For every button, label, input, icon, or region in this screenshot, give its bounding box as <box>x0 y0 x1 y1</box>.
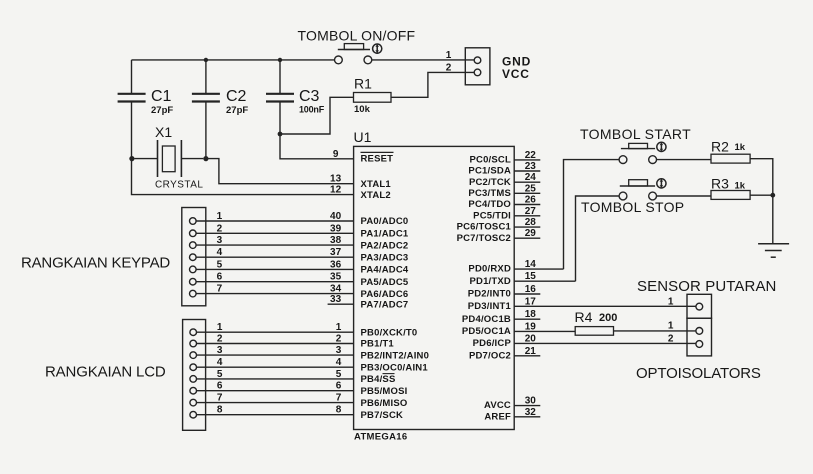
svg-text:VCC: VCC <box>502 67 530 81</box>
wire keypad pin 5 to U1 pin 36 <box>196 268 354 270</box>
connector LCD <box>183 320 206 431</box>
svg-text:PD3/INT1: PD3/INT1 <box>468 301 512 312</box>
svg-text:3: 3 <box>217 235 223 246</box>
svg-text:PC5/TDI: PC5/TDI <box>473 210 511 221</box>
pin 14 PD0/RXD stub/wire <box>514 268 563 270</box>
svg-text:1: 1 <box>446 50 452 61</box>
svg-text:TOMBOL START: TOMBOL START <box>580 126 691 142</box>
wire left rail upper (C1 top lead) <box>131 60 133 94</box>
wire C3 junction to R1 left <box>280 97 354 134</box>
svg-text:27pF: 27pF <box>226 105 248 116</box>
switch TOMBOL ON/OFF <box>298 28 416 64</box>
svg-text:1k: 1k <box>735 142 746 153</box>
node junction C3 top <box>278 58 282 62</box>
svg-text:PC3/TMS: PC3/TMS <box>468 188 511 199</box>
connector sensor putaran <box>687 294 712 318</box>
svg-text:20: 20 <box>525 333 537 344</box>
wire crystal right to XTAL1 <box>206 159 354 184</box>
svg-text:PD1/TXD: PD1/TXD <box>469 276 511 287</box>
pin 15 PD1/TXD stub/wire <box>514 280 575 282</box>
pin 32 AREF stub <box>514 416 540 418</box>
svg-text:PB4/SS: PB4/SS <box>361 374 396 385</box>
svg-text:PB6/MISO: PB6/MISO <box>361 398 408 409</box>
svg-text:6: 6 <box>217 381 223 392</box>
svg-text:PA1/ADC1: PA1/ADC1 <box>361 229 409 240</box>
wire LCD pin 7 to U1 pin 7 <box>197 402 354 404</box>
capacitor C1 <box>118 88 174 116</box>
wire C2 top lead <box>205 60 207 94</box>
pin 16 PD2/INT0 stub/wire <box>514 293 540 295</box>
svg-text:29: 29 <box>525 228 537 239</box>
svg-text:PC1/SDA: PC1/SDA <box>468 166 511 177</box>
crystal X1 <box>135 124 204 191</box>
wire C3 top lead <box>279 60 281 94</box>
wire LCD pin 6 to U1 pin 6 <box>197 390 354 392</box>
wire R3 right to ground rail <box>750 194 773 196</box>
svg-text:14: 14 <box>525 259 537 270</box>
pin 27 PC5/TDI stub <box>514 215 540 217</box>
wire keypad pin 6 to U1 pin 35 <box>196 281 354 283</box>
pin 28 PC6/TOSC1 stub <box>514 226 540 228</box>
pin 24 PC2/TCK stub <box>514 181 540 183</box>
wire LCD pin 5 to U1 pin 5 <box>197 378 354 380</box>
node junction crystal right <box>203 156 208 161</box>
svg-text:PD5/OC1A: PD5/OC1A <box>462 326 511 337</box>
svg-text:C1: C1 <box>151 88 172 105</box>
ground symbol <box>758 244 789 258</box>
svg-text:PB5/MOSI: PB5/MOSI <box>361 386 408 397</box>
svg-text:35: 35 <box>330 272 342 283</box>
svg-text:R3: R3 <box>711 176 729 192</box>
pin 22 PC0/SCL stub <box>514 159 540 161</box>
svg-text:PC6/TOSC1: PC6/TOSC1 <box>457 222 512 233</box>
svg-text:5: 5 <box>217 369 223 380</box>
wire R2 right to ground rail <box>750 159 773 244</box>
svg-text:22: 22 <box>525 150 537 161</box>
wire keypad pin 7 to U1 pin 34 <box>196 293 354 295</box>
svg-text:21: 21 <box>525 346 537 357</box>
svg-text:4: 4 <box>217 357 223 368</box>
svg-text:200: 200 <box>599 312 617 324</box>
svg-text:1: 1 <box>668 321 674 332</box>
svg-text:23: 23 <box>525 161 537 172</box>
svg-text:6: 6 <box>217 272 223 283</box>
svg-text:4: 4 <box>217 247 223 258</box>
node junction crystal left <box>129 156 134 161</box>
svg-text:2: 2 <box>217 223 223 234</box>
svg-text:PC4/TDO: PC4/TDO <box>468 199 511 210</box>
svg-text:4: 4 <box>336 357 342 368</box>
svg-text:PA5/ADC5: PA5/ADC5 <box>361 277 409 288</box>
wire START left contact to pin14 riser <box>564 160 620 270</box>
svg-text:28: 28 <box>525 217 537 228</box>
resistor R1 <box>354 76 392 116</box>
svg-text:7: 7 <box>336 393 342 404</box>
node junction C3 bottom <box>278 132 283 137</box>
svg-text:7: 7 <box>217 284 223 295</box>
node junction R3/ground rail <box>770 193 775 198</box>
wire C1 bottom lead <box>131 102 133 159</box>
svg-text:5: 5 <box>217 259 223 270</box>
wire LCD pin 3 to U1 pin 3 <box>197 354 354 356</box>
svg-text:PA6/ADC6: PA6/ADC6 <box>361 289 409 300</box>
switch TOMBOL START <box>580 126 691 164</box>
pin 25 PC3/TMS stub <box>514 192 540 194</box>
svg-text:C3: C3 <box>299 88 320 105</box>
svg-text:AVCC: AVCC <box>484 400 511 411</box>
svg-text:2: 2 <box>217 334 223 345</box>
svg-text:PA3/ADC3: PA3/ADC3 <box>361 252 409 263</box>
wire left rail lower to XTAL2 <box>132 159 354 195</box>
capacitor C2 <box>192 88 248 116</box>
svg-text:OPTOISOLATORS: OPTOISOLATORS <box>636 365 761 382</box>
svg-text:24: 24 <box>525 172 537 183</box>
wire keypad pin 1 to U1 pin 40 <box>196 220 354 222</box>
svg-text:TOMBOL ON/OFF: TOMBOL ON/OFF <box>298 28 416 44</box>
svg-text:CRYSTAL: CRYSTAL <box>155 180 203 191</box>
svg-text:27pF: 27pF <box>151 105 173 116</box>
connector J1 GND/VCC <box>465 48 490 85</box>
svg-text:PD0/RXD: PD0/RXD <box>468 264 511 275</box>
svg-text:100nF: 100nF <box>299 105 325 115</box>
svg-text:PD7/OC2: PD7/OC2 <box>469 350 511 361</box>
svg-text:3: 3 <box>217 345 223 356</box>
pin 29 PC7/TOSC2 stub <box>514 237 540 239</box>
svg-text:19: 19 <box>525 321 537 332</box>
svg-text:XTAL1: XTAL1 <box>361 179 392 190</box>
svg-text:12: 12 <box>330 185 342 196</box>
svg-text:5: 5 <box>336 369 342 380</box>
wire C3 bottom lead <box>279 102 281 135</box>
connector optoisolators <box>687 318 712 356</box>
svg-text:7: 7 <box>217 393 223 404</box>
svg-text:PA7/ADC7: PA7/ADC7 <box>361 299 409 310</box>
wire LCD pin 2 to U1 pin 2 <box>197 343 354 345</box>
wire LCD pin 4 to U1 pin 4 <box>197 366 354 368</box>
svg-text:3: 3 <box>336 345 342 356</box>
svg-text:XTAL2: XTAL2 <box>361 190 391 201</box>
svg-text:16: 16 <box>525 284 537 295</box>
svg-text:RANGKAIAN LCD: RANGKAIAN LCD <box>45 364 166 381</box>
svg-text:PB1/T1: PB1/T1 <box>361 339 395 350</box>
svg-text:RESET: RESET <box>361 154 394 165</box>
svg-text:PB0/XCK/T0: PB0/XCK/T0 <box>361 327 418 338</box>
svg-text:36: 36 <box>330 259 342 270</box>
svg-text:8: 8 <box>217 405 223 416</box>
wire R4 right lead to opto pin1 <box>614 330 696 332</box>
svg-text:34: 34 <box>330 284 342 295</box>
overline for SS on PB4 <box>383 373 395 375</box>
svg-text:9: 9 <box>333 149 339 160</box>
svg-text:U1: U1 <box>354 129 372 145</box>
svg-text:38: 38 <box>330 235 342 246</box>
svg-text:15: 15 <box>525 271 537 282</box>
svg-text:6: 6 <box>336 381 342 392</box>
svg-text:25: 25 <box>525 183 537 194</box>
pin 19 PD5/OC1A stub/wire <box>514 330 575 332</box>
svg-text:PA2/ADC2: PA2/ADC2 <box>361 240 409 251</box>
svg-text:18: 18 <box>525 309 537 320</box>
svg-text:32: 32 <box>525 407 537 418</box>
svg-text:1k: 1k <box>735 181 746 192</box>
svg-text:40: 40 <box>330 211 342 222</box>
pin 23 PC1/SDA stub <box>514 170 540 172</box>
svg-text:PC2/TCK: PC2/TCK <box>469 177 511 188</box>
svg-text:26: 26 <box>525 195 537 206</box>
wire R1 right to connector pin2 <box>391 72 474 97</box>
svg-text:39: 39 <box>330 223 342 234</box>
pin 20 PD6/ICP stub/wire <box>514 342 696 344</box>
pin 21 PD7/OC2 stub/wire <box>514 355 540 357</box>
wire STOP right contact to R3 <box>656 195 711 197</box>
svg-text:33: 33 <box>330 294 342 305</box>
wire keypad pin 2 to U1 pin 39 <box>196 232 354 234</box>
svg-text:R2: R2 <box>711 139 729 155</box>
wire C3 junction down to RESET <box>280 134 354 159</box>
wire LCD pin 1 to U1 pin 1 <box>197 331 354 333</box>
svg-text:30: 30 <box>525 396 537 407</box>
wire switch right contact to connector pin1 <box>372 59 475 61</box>
svg-text:R4: R4 <box>575 309 593 325</box>
node junction C2 top <box>204 58 208 62</box>
svg-text:2: 2 <box>446 62 452 73</box>
wire LCD pin 8 to U1 pin 8 <box>197 414 354 416</box>
svg-text:PD4/OC1B: PD4/OC1B <box>462 314 511 325</box>
svg-text:27: 27 <box>525 206 537 217</box>
svg-text:PD2/INT0: PD2/INT0 <box>468 289 511 300</box>
svg-text:13: 13 <box>330 174 342 185</box>
svg-text:R1: R1 <box>354 76 372 92</box>
wire keypad pin 3 to U1 pin 38 <box>196 244 354 246</box>
svg-text:PC0/SCL: PC0/SCL <box>469 155 511 166</box>
svg-text:X1: X1 <box>155 124 172 140</box>
svg-text:1: 1 <box>217 322 223 333</box>
resistor R4 <box>575 309 618 335</box>
svg-text:10k: 10k <box>354 104 371 115</box>
svg-text:8: 8 <box>336 405 342 416</box>
svg-text:RANGKAIAN KEYPAD: RANGKAIAN KEYPAD <box>21 255 170 272</box>
svg-text:C2: C2 <box>226 88 247 105</box>
wire top bus <box>132 59 335 61</box>
svg-text:PA4/ADC4: PA4/ADC4 <box>361 265 409 276</box>
svg-text:1: 1 <box>336 322 342 333</box>
wire START right contact to R2 <box>656 159 711 161</box>
svg-text:PC7/TOSC2: PC7/TOSC2 <box>457 233 511 244</box>
resistor R3 <box>711 176 750 200</box>
svg-text:1: 1 <box>217 211 223 222</box>
op chip U1 ATMEGA16 body <box>354 129 515 443</box>
svg-text:17: 17 <box>525 296 537 307</box>
svg-text:SENSOR PUTARAN: SENSOR PUTARAN <box>637 278 776 295</box>
svg-text:PD6/ICP: PD6/ICP <box>473 338 512 349</box>
svg-text:ATMEGA16: ATMEGA16 <box>354 432 407 443</box>
svg-text:1: 1 <box>668 296 674 307</box>
svg-text:37: 37 <box>330 247 342 258</box>
wire STOP left contact to pin15 riser <box>576 196 620 281</box>
capacitor C3 <box>266 88 325 115</box>
svg-text:AREF: AREF <box>484 411 511 422</box>
svg-text:PB2/INT2/AIN0: PB2/INT2/AIN0 <box>361 350 430 361</box>
switch TOMBOL STOP <box>581 179 684 215</box>
svg-text:2: 2 <box>336 334 342 345</box>
svg-text:2: 2 <box>668 334 674 345</box>
pin 26 PC4/TDO stub <box>514 204 540 206</box>
pin 33 PA7 stub <box>328 303 354 305</box>
svg-text:PB3/OC0/AIN1: PB3/OC0/AIN1 <box>361 362 429 373</box>
connector keypad <box>182 208 206 306</box>
wire C2 bottom lead <box>205 102 207 159</box>
svg-text:TOMBOL STOP: TOMBOL STOP <box>581 199 684 215</box>
svg-text:PA0/ADC0: PA0/ADC0 <box>361 216 409 227</box>
resistor R2 <box>711 139 750 164</box>
wire keypad pin 4 to U1 pin 37 <box>196 256 354 258</box>
pin 17 PD3/INT1 stub/wire <box>514 305 696 307</box>
pin 30 AVCC stub <box>514 405 540 407</box>
pin 18 PD4/OC1B stub/wire <box>514 318 540 320</box>
svg-text:PB7/SCK: PB7/SCK <box>361 410 404 421</box>
